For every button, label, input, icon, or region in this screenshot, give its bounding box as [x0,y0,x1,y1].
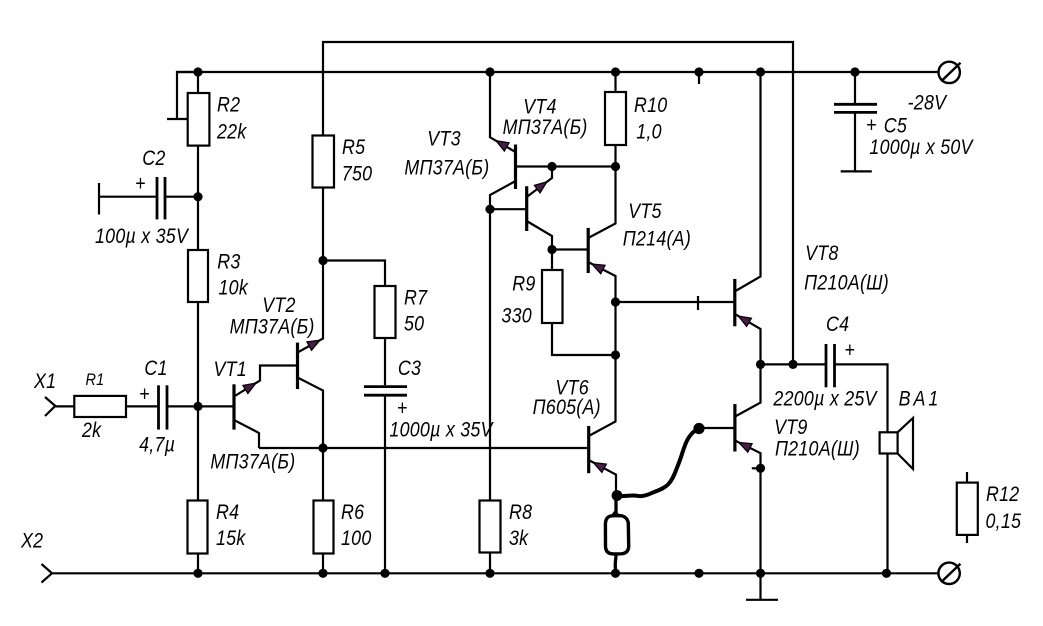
svg-text:4,7µ: 4,7µ [139,433,175,457]
svg-text:VT5: VT5 [628,200,661,224]
svg-text:R9: R9 [512,272,535,296]
svg-text:+: + [844,339,855,363]
svg-text:C3: C3 [398,357,421,381]
svg-text:МП37А(Б): МП37А(Б) [210,450,295,474]
svg-text:R2: R2 [217,93,240,117]
svg-text:-28V: -28V [908,91,948,115]
svg-text:VT3: VT3 [427,127,460,151]
svg-text:1,0: 1,0 [636,120,662,144]
svg-text:+: + [866,114,877,138]
svg-text:VT8: VT8 [805,242,838,266]
svg-text:МП37А(Б): МП37А(Б) [503,115,588,139]
svg-text:C1: C1 [144,356,167,380]
svg-text:C2: C2 [142,146,165,170]
svg-text:X1: X1 [33,370,56,394]
svg-text:330: 330 [501,304,532,328]
svg-text:R5: R5 [342,136,365,160]
svg-text:100: 100 [341,527,372,551]
svg-text:2k: 2k [81,419,102,443]
svg-text:BA1: BA1 [899,387,942,411]
svg-text:VT2: VT2 [262,294,295,318]
svg-text:VT9: VT9 [774,415,807,439]
svg-text:R3: R3 [217,250,240,274]
svg-text:+: + [135,172,146,196]
svg-text:VT1: VT1 [214,357,247,381]
svg-text:50: 50 [404,312,424,336]
svg-text:R6: R6 [341,500,364,524]
svg-text:3k: 3k [509,527,529,551]
svg-text:МП37А(Б): МП37А(Б) [404,156,489,180]
svg-text:C4: C4 [826,313,849,337]
svg-text:X2: X2 [20,529,43,553]
svg-text:R8: R8 [509,500,532,524]
svg-text:15k: 15k [216,527,246,551]
svg-text:22k: 22k [216,120,247,144]
svg-text:R4: R4 [216,500,239,524]
svg-text:П605(А): П605(А) [533,396,601,420]
svg-text:+: + [397,397,408,421]
svg-text:R10: R10 [634,93,667,117]
svg-text:1000µ x 50V: 1000µ x 50V [869,136,974,160]
svg-text:R12: R12 [986,483,1019,507]
svg-text:П214(А): П214(А) [623,227,691,251]
svg-text:2200µ x 25V: 2200µ x 25V [772,387,878,411]
svg-text:C5: C5 [884,114,907,138]
svg-text:R7: R7 [404,286,428,310]
svg-text:П210А(Ш): П210А(Ш) [804,271,889,295]
svg-text:0,15: 0,15 [986,510,1022,534]
svg-text:МП37А(Б): МП37А(Б) [230,315,315,339]
svg-text:10k: 10k [219,276,249,300]
svg-text:100µ x 35V: 100µ x 35V [95,225,190,249]
svg-text:П210А(Ш): П210А(Ш) [775,437,860,461]
svg-text:750: 750 [342,162,373,186]
svg-text:R1: R1 [86,371,105,389]
svg-text:1000µ x 35V: 1000µ x 35V [389,418,494,442]
svg-text:+: + [139,383,150,407]
